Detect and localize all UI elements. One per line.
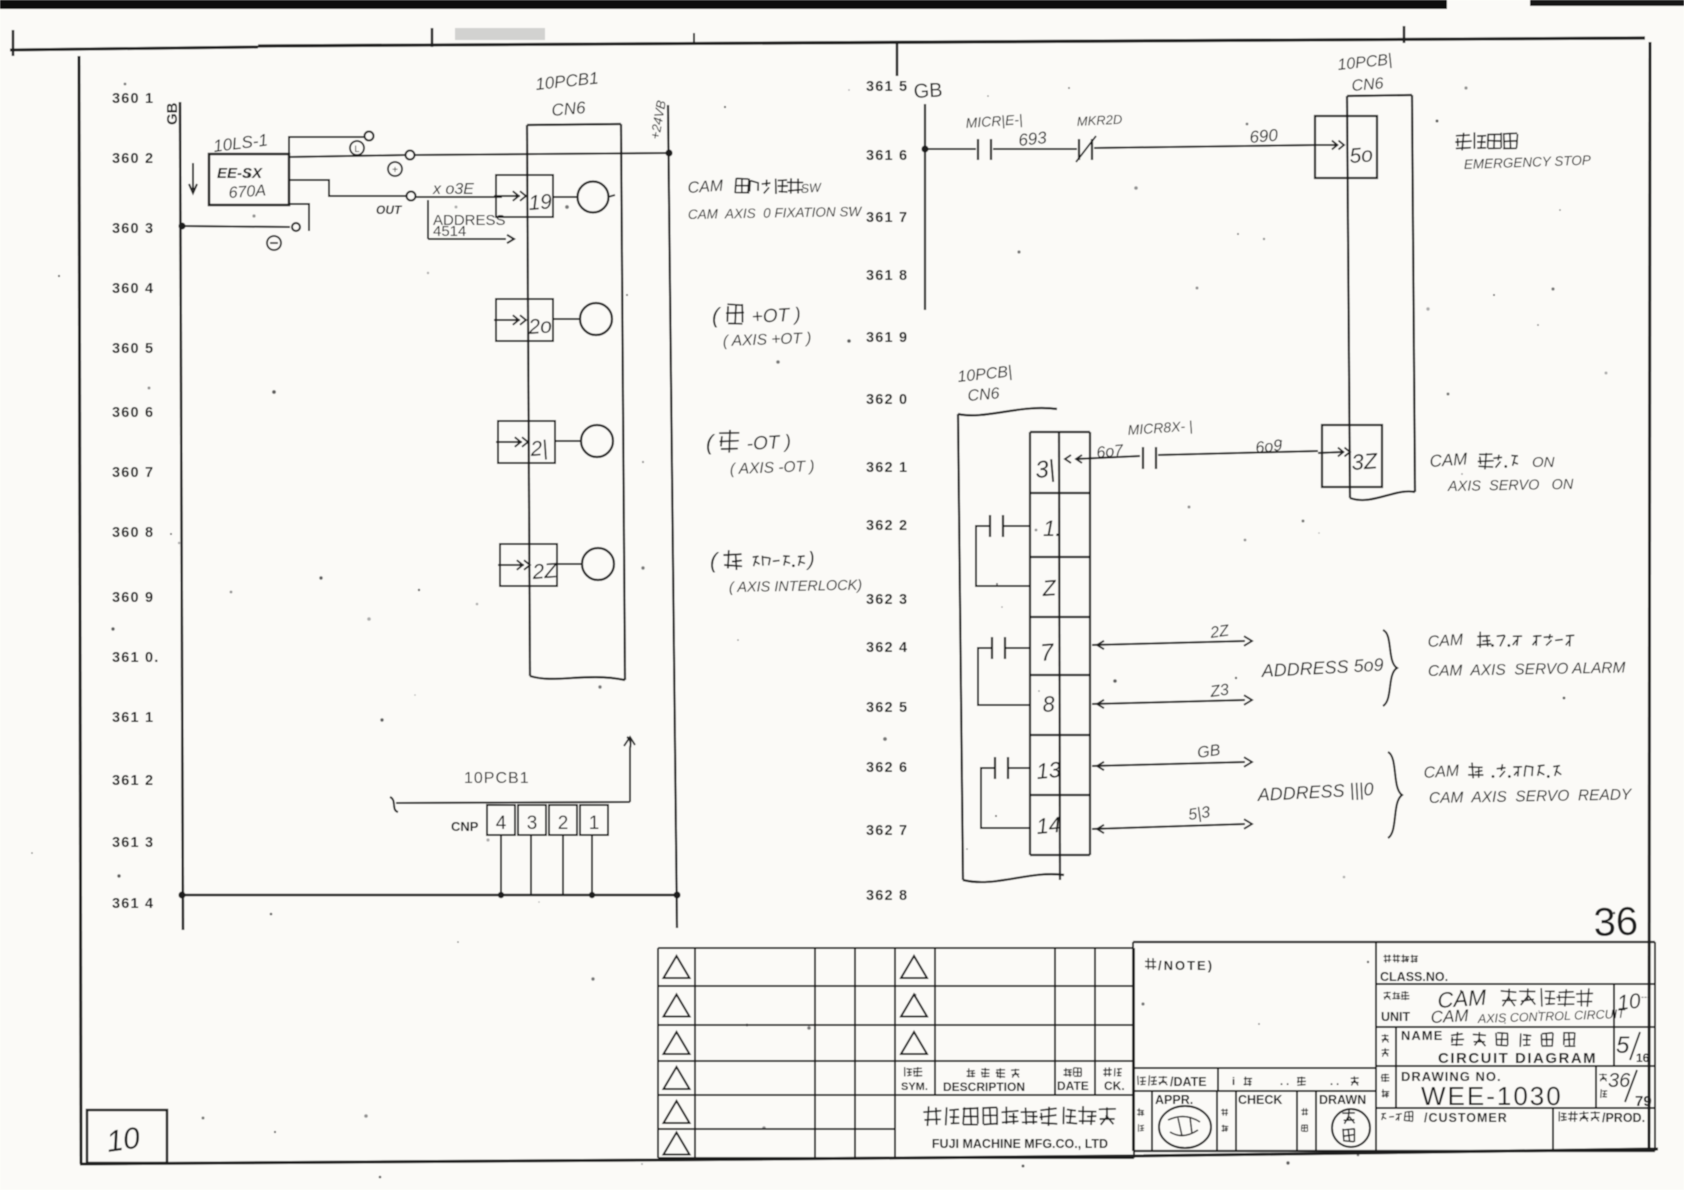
svg-text:79: 79: [1635, 1093, 1652, 1110]
svg-text:3: 3: [527, 813, 538, 834]
svg-text:GB: GB: [1196, 742, 1222, 762]
svg-text:( AXIS INTERLOCK): ( AXIS INTERLOCK): [729, 578, 862, 596]
svg-text:WEE-1030: WEE-1030: [1421, 1081, 1563, 1111]
svg-text:CIRCUIT DIAGRAM: CIRCUIT DIAGRAM: [1438, 1050, 1597, 1067]
svg-text:AXIS SERVO ON: AXIS SERVO ON: [1447, 477, 1574, 495]
svg-text:362 2: 362 2: [866, 518, 908, 534]
svg-text:362 8: 362 8: [866, 888, 908, 904]
svg-text:. .: . .: [1280, 1076, 1289, 1088]
svg-text:1.: 1.: [1043, 516, 1061, 541]
svg-text:362 5: 362 5: [866, 700, 908, 716]
svg-text:693: 693: [1017, 128, 1048, 150]
svg-text:DATE: DATE: [1057, 1079, 1089, 1093]
svg-text:360 8: 360 8: [112, 525, 154, 541]
svg-text:CN6: CN6: [1351, 75, 1384, 95]
svg-text:/NOTE): /NOTE): [1158, 958, 1214, 973]
svg-text:362 6: 362 6: [866, 760, 908, 776]
svg-text:CN6: CN6: [967, 385, 1000, 405]
svg-text:DESCRIPTION: DESCRIPTION: [943, 1080, 1025, 1094]
svg-text:SYM.: SYM.: [901, 1081, 928, 1093]
svg-text:APPR.: APPR.: [1155, 1093, 1193, 1107]
svg-text:360 2: 360 2: [112, 151, 154, 167]
svg-text:670A: 670A: [228, 182, 266, 202]
svg-text:360 4: 360 4: [112, 281, 154, 297]
svg-text:13: 13: [1035, 757, 1062, 784]
svg-text:2Z: 2Z: [531, 559, 559, 584]
svg-text:( AXIS -OT ): ( AXIS -OT ): [730, 458, 815, 478]
svg-text:19: 19: [528, 190, 553, 215]
svg-text:CN6: CN6: [551, 98, 587, 120]
svg-text:5|3: 5|3: [1187, 804, 1211, 824]
svg-text:ON: ON: [1532, 454, 1555, 471]
svg-text:-OT ): -OT ): [746, 432, 791, 455]
svg-text:2Z: 2Z: [1208, 622, 1231, 642]
svg-text:CAM AXIS SERVO ALARM: CAM AXIS SERVO ALARM: [1428, 660, 1626, 680]
svg-text:): ): [806, 549, 815, 571]
svg-text:14: 14: [1035, 812, 1062, 839]
svg-text:360 6: 360 6: [112, 405, 154, 421]
svg-text:CNP: CNP: [451, 819, 479, 834]
svg-text:4: 4: [496, 813, 507, 834]
svg-text:. .: . .: [1330, 1076, 1339, 1088]
svg-text:1: 1: [589, 813, 600, 834]
svg-text:GB: GB: [913, 80, 943, 103]
svg-text:362 7: 362 7: [866, 823, 908, 839]
svg-text:( AXIS +OT ): ( AXIS +OT ): [723, 330, 812, 350]
svg-text:+OT ): +OT ): [751, 304, 801, 328]
svg-text:CHECK: CHECK: [1238, 1093, 1282, 1107]
svg-text:CK.: CK.: [1104, 1079, 1125, 1093]
svg-text:362 1: 362 1: [866, 460, 908, 476]
svg-text:3|: 3|: [1034, 455, 1056, 484]
svg-text:16: 16: [1636, 1051, 1650, 1065]
svg-text:36: 36: [1593, 899, 1639, 945]
svg-text:6o9: 6o9: [1255, 437, 1283, 457]
svg-text:+: +: [392, 165, 398, 176]
svg-text:NAME: NAME: [1401, 1028, 1443, 1043]
svg-text:MKR2D: MKR2D: [1076, 112, 1122, 129]
svg-text:361 0.: 361 0.: [112, 650, 160, 666]
svg-text:SW: SW: [800, 181, 822, 196]
svg-text:CAM: CAM: [1430, 1006, 1470, 1027]
svg-text:690: 690: [1249, 126, 1279, 147]
svg-text:---: ---: [1641, 992, 1650, 1002]
svg-text:362 0: 362 0: [866, 392, 908, 408]
svg-text:361 4: 361 4: [112, 896, 154, 912]
svg-text:361 5: 361 5: [866, 79, 908, 95]
svg-text:4514: 4514: [433, 223, 466, 240]
svg-text:360 1: 360 1: [112, 91, 154, 107]
svg-text:6o7: 6o7: [1096, 442, 1125, 462]
svg-text:5: 5: [1616, 1032, 1630, 1059]
svg-text:CAM AXIS SERVO READY: CAM AXIS SERVO READY: [1429, 786, 1633, 807]
svg-text:CAM: CAM: [1423, 763, 1460, 782]
svg-text:360 9: 360 9: [112, 590, 154, 606]
svg-text:360 5: 360 5: [112, 341, 154, 357]
svg-text:/CUSTOMER: /CUSTOMER: [1424, 1111, 1508, 1125]
svg-text:361 9: 361 9: [866, 330, 908, 346]
svg-text:CAM: CAM: [1427, 632, 1464, 651]
svg-text:CAM AXIS 0 FIXATION SW: CAM AXIS 0 FIXATION SW: [688, 204, 863, 222]
svg-text:GB: GB: [164, 102, 181, 125]
svg-text:360 7: 360 7: [112, 465, 154, 481]
svg-text:362 4: 362 4: [866, 640, 908, 656]
svg-text:CAM: CAM: [1429, 449, 1469, 471]
svg-text:361 7: 361 7: [866, 210, 908, 226]
svg-text:10: 10: [104, 1122, 142, 1159]
svg-text:L: L: [354, 144, 359, 154]
svg-text:5o: 5o: [1349, 143, 1374, 168]
svg-text:2: 2: [558, 813, 569, 834]
svg-text:2|: 2|: [529, 437, 549, 461]
svg-text:10PCB1: 10PCB1: [464, 770, 530, 787]
svg-text:3Z: 3Z: [1351, 448, 1380, 475]
svg-text:10: 10: [1616, 990, 1642, 1015]
svg-text:2o: 2o: [527, 314, 553, 339]
svg-text:EE-SX: EE-SX: [217, 165, 263, 182]
svg-text:CAM: CAM: [687, 178, 724, 197]
svg-text:362 3: 362 3: [866, 592, 908, 608]
svg-text:OUT: OUT: [376, 203, 403, 217]
svg-text:360 3: 360 3: [112, 221, 154, 237]
svg-text:361 3: 361 3: [112, 835, 154, 851]
svg-text:i: i: [1232, 1076, 1235, 1088]
svg-text:361 1: 361 1: [112, 710, 154, 726]
svg-text:FUJI MACHINE MFG.CO., LTD: FUJI MACHINE MFG.CO., LTD: [932, 1137, 1108, 1151]
svg-text:CLASS.NO.: CLASS.NO.: [1380, 970, 1448, 984]
svg-text:Z3: Z3: [1208, 682, 1230, 702]
svg-text:361 2: 361 2: [112, 773, 154, 789]
svg-text:UNIT: UNIT: [1381, 1010, 1411, 1024]
svg-text:/DATE: /DATE: [1170, 1075, 1207, 1089]
svg-text:361 6: 361 6: [866, 148, 908, 164]
svg-text:36: 36: [1608, 1070, 1631, 1092]
svg-text:/PROD.: /PROD.: [1602, 1111, 1645, 1125]
svg-text:361 8: 361 8: [866, 268, 908, 284]
svg-text:DRAWN: DRAWN: [1319, 1093, 1366, 1107]
svg-text:x o3E: x o3E: [432, 181, 474, 198]
